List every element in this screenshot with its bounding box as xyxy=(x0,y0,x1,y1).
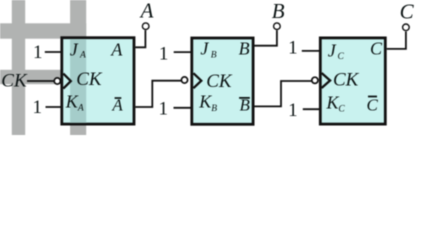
svg-text:C: C xyxy=(338,105,345,115)
svg-text:K: K xyxy=(326,93,340,113)
svg-text:A: A xyxy=(111,96,123,115)
svg-text:C: C xyxy=(367,95,379,114)
svg-text:1: 1 xyxy=(33,42,43,63)
svg-text:C: C xyxy=(400,0,415,24)
svg-text:B: B xyxy=(211,50,217,60)
svg-text:A: A xyxy=(110,40,123,60)
svg-text:B: B xyxy=(240,95,251,114)
svg-text:A: A xyxy=(79,51,86,61)
svg-text:CK: CK xyxy=(333,70,360,91)
svg-text:B: B xyxy=(239,39,250,59)
svg-text:1: 1 xyxy=(33,97,43,118)
svg-text:1: 1 xyxy=(159,98,169,119)
svg-text:CK: CK xyxy=(76,69,103,90)
svg-text:J: J xyxy=(70,40,79,60)
svg-text:C: C xyxy=(338,52,345,62)
svg-text:A: A xyxy=(139,0,154,23)
svg-text:1: 1 xyxy=(288,100,298,121)
svg-text:CK: CK xyxy=(1,70,28,91)
svg-text:J: J xyxy=(200,39,209,59)
svg-text:J: J xyxy=(328,40,337,60)
svg-text:C: C xyxy=(370,39,383,59)
svg-text:K: K xyxy=(198,92,212,112)
svg-text:K: K xyxy=(65,92,79,112)
svg-text:CK: CK xyxy=(206,71,233,92)
svg-text:B: B xyxy=(272,0,285,23)
svg-text:1: 1 xyxy=(288,38,298,59)
svg-text:A: A xyxy=(77,104,84,114)
svg-text:B: B xyxy=(211,104,217,114)
svg-text:1: 1 xyxy=(159,43,169,64)
